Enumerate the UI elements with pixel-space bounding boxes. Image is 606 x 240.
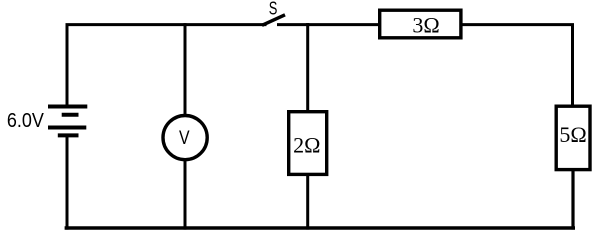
switch S (open blade): [262, 15, 285, 25]
resistor R1 3-ohm (box): [380, 10, 461, 38]
wire from 5-ohm resistor down to bottom wire: [571, 170, 574, 230]
svg-text:3Ω: 3Ω: [412, 13, 439, 38]
svg-text:2Ω: 2Ω: [293, 133, 320, 158]
wire from battery positive up and across to switch: [67, 25, 267, 107]
wire from battery negative down to bottom wire: [66, 135, 69, 229]
resistor R3 5-ohm (box): [556, 106, 590, 169]
wire from voltmeter down to bottom wire: [184, 160, 187, 230]
voltmeter U1 (circle): [163, 116, 207, 160]
svg-text:6.0V: 6.0V: [7, 110, 45, 132]
svg-text:5Ω: 5Ω: [559, 122, 586, 147]
resistor R2 2-ohm (box): [289, 112, 327, 175]
wire from junction to 3-ohm resistor: [306, 23, 379, 26]
wire bottom return: [65, 226, 575, 229]
wire from 3-ohm resistor to top-right corner and down to 5-ohm: [461, 25, 572, 107]
svg-text:S: S: [269, 0, 278, 19]
wire 2-ohm branch from resistor down to bottom wire: [306, 175, 309, 230]
svg-text:V: V: [179, 128, 190, 149]
wire from top wire down to voltmeter: [184, 23, 187, 116]
battery B1 (6.0V cells): [48, 107, 87, 136]
wire from switch to junction of 2-ohm branch: [277, 23, 309, 26]
wire 2-ohm branch from junction down to resistor: [306, 23, 309, 112]
